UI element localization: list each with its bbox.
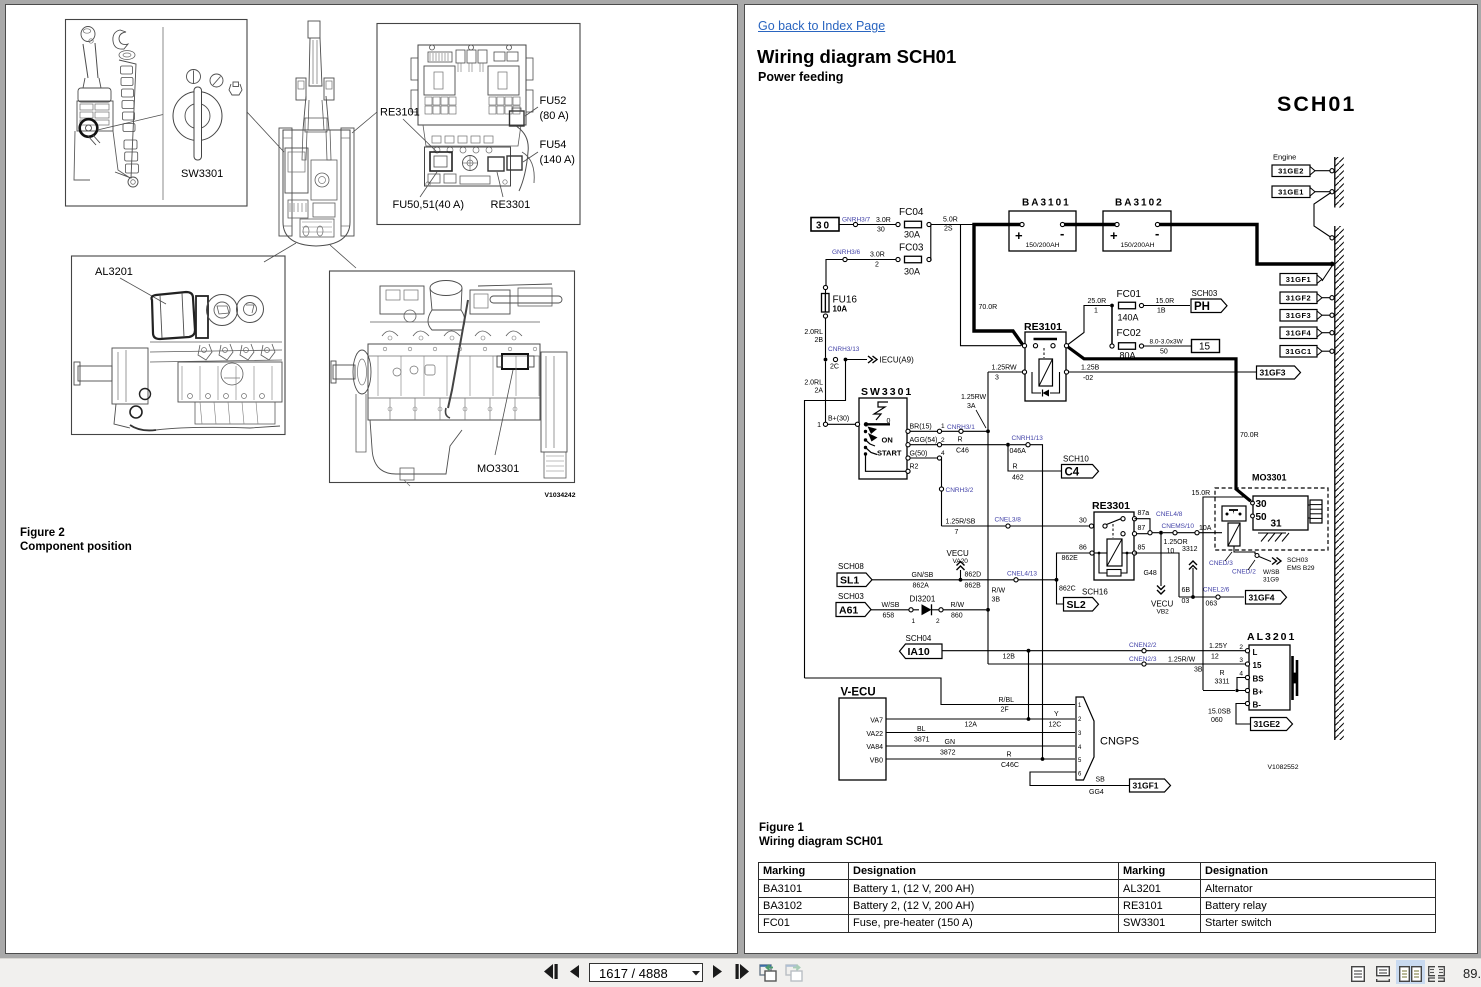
svg-text:PH: PH [1194,301,1210,313]
svg-text:87: 87 [1138,525,1146,532]
boom cylinders [302,130,307,160]
svg-text:31: 31 [1271,519,1283,530]
wire R/BL 2F from 2A feed to CNGPS pin 1 [805,678,1076,705]
svg-text:1: 1 [817,422,821,429]
right page of PDF viewer [744,4,1478,954]
leader from inset to excavator cab [247,112,284,152]
svg-text:VB0: VB0 [870,758,883,765]
svg-text:B+(30): B+(30) [828,416,849,423]
svg-text:1.25Y: 1.25Y [1209,643,1228,650]
svg-text:060: 060 [1211,717,1223,724]
svg-text:2: 2 [941,437,945,444]
svg-text:SL2: SL2 [1067,599,1086,611]
svg-text:3B: 3B [1194,667,1203,674]
connector CNGPS [1076,697,1094,780]
svg-text:10A: 10A [833,305,848,314]
toolbar: continuous layout icon [1376,966,1390,982]
wire VA22 BL 3871 to CNGPS pin 3 [886,732,1075,734]
svg-text:4: 4 [1078,745,1082,751]
svg-text:VECU: VECU [947,549,969,558]
svg-text:SCH03: SCH03 [1287,557,1308,564]
svg-text:GNRH3/7: GNRH3/7 [842,217,871,224]
svg-text:GN: GN [945,739,956,746]
svg-text:15: 15 [1199,342,1211,353]
svg-text:31GF3: 31GF3 [1286,311,1311,320]
svg-text:2: 2 [875,262,879,269]
svg-text:12B: 12B [1003,654,1016,661]
svg-text:-: - [1060,226,1064,241]
wire down from GNRH3/6 corner to fuse FU16 [823,285,827,289]
svg-text:Y: Y [1054,711,1059,718]
wire 85 to 31GF4 row [1135,553,1180,597]
ground bar (engine, main) with hatching [1334,226,1336,740]
fuse FU54 [507,156,522,170]
svg-text:7: 7 [955,529,959,536]
svg-text:3B: 3B [992,597,1001,604]
wire thin from RE3101 contact up to pre-heater fuses [1068,306,1110,345]
svg-text:862C: 862C [1059,586,1076,593]
svg-text:V-ECU: V-ECU [841,687,876,699]
svg-text:FU50,51(40 A): FU50,51(40 A) [393,199,465,211]
wire 87a/87 to starter motor relay [1135,519,1151,531]
svg-text:1: 1 [912,618,916,625]
svg-text:15.0R: 15.0R [1192,490,1211,497]
chevron continuation symbol above 31GF4 junction [1192,568,1194,597]
svg-text:2C: 2C [830,364,839,371]
fuse FC01 140A (pre-heater) [1110,304,1114,308]
svg-text:1: 1 [1094,308,1098,315]
svg-text:1: 1 [1078,703,1082,709]
svg-text:BA3102: BA3102 [1115,198,1164,209]
starter pinion gear [1310,500,1322,523]
connector CNEL4/13 [1014,578,1018,582]
relay modules row [428,52,452,62]
svg-text:5: 5 [1078,758,1082,764]
svg-text:2: 2 [1239,644,1243,651]
svg-text:CNEL4/13: CNEL4/13 [1007,571,1037,578]
svg-text:SW3301: SW3301 [861,386,913,398]
svg-text:3.0R: 3.0R [870,252,885,259]
svg-text:VA20: VA20 [953,558,969,565]
node 30 (battery feed source box) [811,218,839,232]
svg-text:063: 063 [1206,601,1218,608]
starter solenoid relay inside MO3301 [1222,506,1246,521]
engine block right [178,362,282,402]
svg-text:SL1: SL1 [840,575,859,587]
wire SB GG4 from CNGPS pin 6 to tag 31GF1 [1030,772,1130,786]
svg-text:3: 3 [995,375,999,382]
wire 1.25R/SB 7 to relay RE3301 pin 30 [942,525,1090,527]
svg-text:25.0R: 25.0R [1088,298,1107,305]
wire 1.25B -02 from RE3101 coil to tag 31GF3 [1069,371,1257,373]
svg-text:START: START [877,449,902,458]
fuse grids [425,97,432,105]
svg-text:FC01: FC01 [1117,289,1142,300]
svg-text:RE3101: RE3101 [1024,321,1062,333]
svg-text:AL3201: AL3201 [95,266,133,278]
engine pulleys [207,295,238,326]
svg-text:CNGPS: CNGPS [1100,736,1139,748]
relay plate (lower) with RE3301 [425,147,511,186]
svg-text:1.25R/SB: 1.25R/SB [946,519,976,526]
tag 31GF4 [1246,591,1287,605]
svg-text:BR(15): BR(15) [910,424,932,431]
svg-text:3: 3 [1078,731,1082,737]
wire GN/SB 862A to relay RE3301 pin 86 [872,579,1055,581]
svg-text:462: 462 [1012,475,1024,482]
svg-text:CNEL4/8: CNEL4/8 [1156,511,1183,518]
svg-text:1B: 1B [1157,308,1166,315]
svg-text:RE3301: RE3301 [1092,500,1130,512]
svg-text:C46: C46 [956,448,969,455]
wire (thick) BA3101 - to BA3102 + [1064,223,1117,226]
svg-text:SB: SB [1096,777,1106,784]
svg-text:DI3201: DI3201 [910,595,936,604]
crank pulley left [333,365,355,379]
toolbar: next view icon (disabled) [785,962,803,983]
svg-text:MO3301: MO3301 [1252,473,1287,483]
toolbar: last page button [735,964,751,979]
svg-text:BS: BS [1253,675,1265,684]
starter switch wiper arrows ON / START [868,427,878,435]
svg-text:3872: 3872 [940,750,956,757]
starter motor on engine [502,354,528,369]
wire R/W 3B vertical (BR15 bus) down to CNEN2/3 row [987,431,989,664]
svg-text:862B: 862B [965,583,982,590]
svg-text:SCH10: SCH10 [1063,455,1089,464]
inset box: engine with starter motor MO3301 [330,271,575,483]
tag 31GE2 to engine ground [1272,165,1310,177]
svg-text:IECU(A9): IECU(A9) [880,356,915,365]
svg-text:VA7: VA7 [870,718,883,725]
svg-text:15.0R: 15.0R [1156,298,1175,305]
wire branch from 2C down-left to V-ECU feed [805,360,846,679]
leader lines from excavator to detail boxes [352,112,377,133]
svg-text:2S: 2S [944,226,953,233]
wire 15.0R from alternator B+ up to starter 30 [1203,497,1253,690]
svg-text:1.25RW: 1.25RW [961,394,987,401]
svg-text:V1034242: V1034242 [545,492,576,499]
engine block [368,344,540,420]
dipstick diagonal [448,300,468,408]
thick battery bus: feed to BA3101 + and down to RE3101 [974,225,1023,346]
toolbar: previous page button [569,965,580,978]
svg-text:W/SB: W/SB [882,602,900,609]
svg-text:12A: 12A [965,722,978,729]
svg-text:C46C: C46C [1001,762,1019,769]
wire GNRH3/7 3.0R from node 30 to fuse FC04 [839,224,896,226]
svg-text:8.0-3.0x3W: 8.0-3.0x3W [1150,339,1184,346]
svg-text:R: R [1007,752,1012,759]
svg-text:W/SB: W/SB [1263,569,1280,576]
svg-text:50: 50 [1256,512,1268,523]
wire 12B from IA10 to alternator L [942,650,1246,652]
flywheel housing right [541,352,567,452]
diode inside RE3101 [1043,390,1050,397]
svg-text:15.0SB: 15.0SB [1208,709,1231,716]
wire C46 down to V-ECU VB0 row [1030,445,1043,759]
svg-text:6B: 6B [1182,587,1191,594]
svg-text:L: L [1253,648,1258,657]
component designation table [758,862,1436,933]
bucket and arm [308,21,320,38]
toolbar: next page button [712,965,723,978]
svg-text:3871: 3871 [914,737,930,744]
svg-text:2.0RL: 2.0RL [804,329,823,336]
svg-text:SCH03: SCH03 [838,592,864,601]
cylinder head details [198,344,212,360]
svg-text:658: 658 [883,613,895,620]
svg-text:2A: 2A [814,388,823,395]
fuse FC02 80A [1110,344,1114,348]
svg-text:31GF2: 31GF2 [1286,293,1311,302]
svg-text:3311: 3311 [1215,679,1230,686]
tag 31GC1 to ground bar [1280,346,1317,358]
wire 5.0R 2S from fuse outputs to battery bus and relay RE3101 [931,224,974,226]
connector CNEN2/2 [1142,649,1146,653]
wire B+ from vertical 15.0R [1203,690,1235,692]
svg-text:R/BL: R/BL [999,697,1015,704]
crankshaft and bracket [112,348,148,404]
toolbar: first page button [543,964,559,979]
svg-text:GN/SB: GN/SB [912,572,934,579]
tag 31GE1 to engine ground [1272,186,1310,198]
svg-text:31GF1: 31GF1 [1286,275,1311,284]
svg-text:31G9: 31G9 [1263,577,1279,584]
connector CNEN2/3 [1142,662,1146,666]
pin BR(15) of SW3301 [906,429,910,433]
wire from solenoid to EMS B29 arrow [1234,546,1255,554]
svg-text:SCH04: SCH04 [906,634,932,643]
svg-text:VECU: VECU [1151,600,1173,609]
toolbar: previous view icon [759,962,777,983]
svg-text:R/W: R/W [992,588,1006,595]
extra engine lines [181,366,183,400]
wire jog between upper and main ground bars [1314,193,1331,238]
svg-text:G(50): G(50) [910,451,928,458]
top pipe [490,296,562,303]
svg-text:6: 6 [1078,772,1082,778]
exhaust manifold arches [370,321,540,323]
harness curve [516,126,528,191]
svg-text:R2: R2 [910,464,919,471]
svg-text:140A: 140A [1118,313,1139,323]
svg-text:1.25OR: 1.25OR [1164,539,1188,546]
svg-text:CNEN2/3: CNEN2/3 [1129,656,1157,663]
svg-text:3: 3 [1239,657,1243,664]
svg-text:3312: 3312 [1182,546,1198,553]
svg-text:2.0RL: 2.0RL [804,380,823,387]
tag 31GF2 to ground bar [1280,292,1317,304]
toolbar: zoom percentage 89. [1463,966,1481,981]
lower switch group [124,140,137,149]
svg-text:30: 30 [816,221,831,232]
pin AGG(54) of SW3301 [906,443,910,447]
tag 31GF4 to ground bar [1280,327,1317,339]
svg-text:B+: B+ [1253,688,1264,697]
oil pan [370,420,462,474]
toolbar: two-page layout icon (selected) [1396,960,1425,984]
upper body and tracks [283,130,350,246]
svg-text:2F: 2F [1001,707,1009,714]
alternator body [152,292,196,339]
fuse FU16 10A [822,294,830,313]
alternator belt pulley [1291,656,1294,700]
svg-text:CNEL2/6: CNEL2/6 [1203,587,1230,594]
svg-text:BA3101: BA3101 [1022,198,1071,209]
svg-text:GNRH3/6: GNRH3/6 [832,249,861,256]
svg-text:862D: 862D [965,572,982,579]
wire to IECU(A9) with arrow [847,359,867,361]
svg-text:R/W: R/W [951,602,965,609]
svg-text:BL: BL [917,726,926,733]
svg-text:30A: 30A [904,267,920,277]
svg-text:CNRH3/2: CNRH3/2 [946,487,974,494]
wire row to tag 31GF4 with connector CNEL2/6 [1179,596,1244,598]
wire VA7 12A / Y 12C to CNGPS pin 2 [886,718,1075,720]
wire 1.25RW 3A vertical down to starter switch BR(15) [987,372,989,431]
svg-text:R: R [1220,670,1225,677]
svg-text:862A: 862A [913,583,930,590]
SCHEMATIC SVG placeholder [745,5,1476,952]
svg-text:C4: C4 [1065,466,1080,478]
rocker switch panel [115,60,136,178]
svg-text:15: 15 [1253,661,1262,670]
svg-text:1.25B: 1.25B [1081,365,1100,372]
wire (thin) from fuse output down to relay RE3101 pin [961,225,1022,346]
svg-text:31GE2: 31GE2 [1278,166,1304,175]
svg-text:CNRH3/13: CNRH3/13 [828,346,860,353]
tag 31GF1 to ground bar [1280,274,1317,286]
arm link cluster [296,78,306,100]
svg-text:CNEN2/2: CNEN2/2 [1129,642,1157,649]
svg-text:87a: 87a [1138,510,1150,517]
svg-text:SW3301: SW3301 [181,168,223,180]
svg-text:VB2: VB2 [1157,609,1170,616]
vertical divider line [162,27,164,200]
wire 2.0RL 2B from FU16 to junction 2C [825,290,827,313]
svg-text:12C: 12C [1049,722,1062,729]
svg-text:SCH16: SCH16 [1082,588,1108,597]
svg-text:GG4: GG4 [1089,789,1104,796]
wire R 3311 loop BS to B+ [1237,678,1246,691]
svg-text:70.0R: 70.0R [979,304,998,311]
lower tray of upper box [423,125,521,146]
svg-text:30: 30 [1079,518,1087,525]
svg-text:2: 2 [1078,717,1082,723]
circled key switch location [80,119,98,137]
wire 15.0R 1B to tag PH [1144,305,1191,307]
svg-text:AL3201: AL3201 [1247,631,1296,643]
svg-text:31GE1: 31GE1 [1278,187,1304,196]
cable curve at top of console [113,30,128,49]
svg-text:CNRH1/13: CNRH1/13 [1012,435,1044,442]
svg-text:R: R [958,437,963,444]
svg-text:50: 50 [1160,349,1168,356]
svg-text:CNEMS/10: CNEMS/10 [1162,523,1195,530]
svg-text:RE3101: RE3101 [380,107,420,119]
misc lines bottom [156,426,280,430]
svg-text:31GF3: 31GF3 [1260,368,1286,378]
wire VA84 GN 3872 to CNGPS pin 4 [886,745,1075,747]
wire GNRH3/6 3.0R from corner to fuse FC03 [826,260,896,287]
svg-text:31GF4: 31GF4 [1286,328,1312,337]
svg-text:3.0R: 3.0R [876,217,891,224]
left page of PDF viewer [5,4,738,954]
svg-text:150/200AH: 150/200AH [1026,242,1060,249]
joystick illustration [81,27,95,42]
extra engine head bolt details [383,347,387,351]
svg-text:10A: 10A [1199,525,1212,532]
wire VB0 R C46C to CNGPS pin 5 [886,758,1075,760]
inset box: alternator AL3201 on engine [72,256,286,435]
svg-text:1.25RW: 1.25RW [992,365,1018,372]
electrical distribution box (upper) [418,45,526,125]
wire (thick) BA3102 - to engine ground bar [1159,225,1330,265]
two socket panels [424,66,455,95]
turbo and intake [430,281,462,296]
svg-text:70.0R: 70.0R [1240,432,1259,439]
wire G48 branch down to VECU VB2 (down arrow) [1160,533,1162,586]
wire W/SB 658 to diode DI3201 [871,609,919,611]
branch to VECU VA20 (up arrow) [959,578,963,582]
svg-text:046A: 046A [1010,448,1027,455]
tag 31GE2 (lower) [1251,718,1293,731]
inset box: relay and fuse box RE3101/RE3301 [377,24,580,225]
svg-text:3A: 3A [967,403,976,410]
svg-text:SCH03: SCH03 [1192,289,1218,298]
svg-text:80A: 80A [1120,351,1136,361]
toolbar: page number combo box 1617 / 4888 [589,963,703,982]
svg-text:30: 30 [877,227,885,234]
connector CNEL3/8 [1006,524,1010,528]
junction to RE3301 86 and tag SL2 [1055,578,1059,582]
svg-text:SCH08: SCH08 [838,562,864,571]
fuse FC03 30A [896,257,900,261]
svg-text:4: 4 [1239,671,1243,678]
wire CNEN2/3 1.25R/W 3B to alternator 15 [988,663,1246,665]
ground bar (engine, upper) with hatching [1334,157,1336,208]
svg-text:5.0R: 5.0R [943,217,958,224]
svg-text:FC02: FC02 [1117,328,1142,339]
svg-text:85: 85 [1138,545,1146,552]
toolbar: two-page continuous layout icon [1428,966,1445,982]
svg-text:EMS B29: EMS B29 [1287,565,1315,572]
svg-text:1.25R/W: 1.25R/W [1168,657,1196,664]
svg-text:862E: 862E [1062,555,1079,562]
key switch detail drawing [173,92,222,141]
svg-text:31GE2: 31GE2 [1254,719,1281,729]
svg-text:A61: A61 [839,604,858,616]
wire R/W 860 from diode to 3B junction [939,608,943,612]
wire 8.0-3.0x3W 50 to terminal 15 [1144,345,1192,347]
svg-text:FU52: FU52 [540,95,567,107]
svg-text:V1082552: V1082552 [1268,764,1299,771]
svg-text:30A: 30A [904,230,920,240]
svg-text:(140 A): (140 A) [540,154,575,166]
node 15 (terminal box) [1192,340,1220,353]
svg-text:G48: G48 [1144,570,1157,577]
svg-text:AGG(54): AGG(54) [910,437,938,444]
engine deck details [311,160,337,200]
svg-text:4: 4 [941,450,945,457]
svg-text:MO3301: MO3301 [477,463,519,475]
svg-text:ON: ON [882,436,893,445]
svg-text:31GF4: 31GF4 [1249,592,1275,602]
svg-text:860: 860 [951,613,963,620]
wire 12B branch down to V-ECU VA7 row [1028,651,1030,719]
wire G(50) down with connector CNRH3/2 [941,459,943,487]
